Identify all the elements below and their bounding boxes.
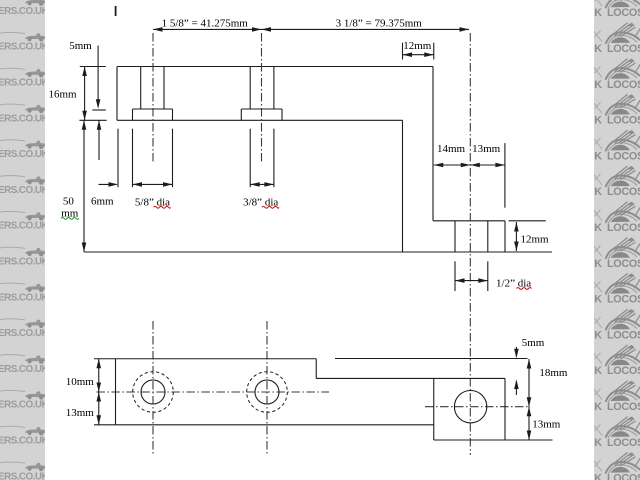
svg-text:LOCOST: LOCOST — [607, 401, 640, 413]
svg-text:LOCOST: LOCOST — [607, 7, 640, 19]
svg-text:K: K — [594, 437, 602, 449]
svg-text:5/8” dia: 5/8” dia — [135, 197, 170, 209]
svg-text:K: K — [594, 43, 602, 55]
svg-text:16mm: 16mm — [48, 89, 77, 101]
svg-text:LOCOST: LOCOST — [607, 186, 640, 198]
svg-text:K: K — [594, 7, 602, 19]
svg-text:DERS.CO.UK: DERS.CO.UK — [0, 436, 49, 447]
svg-text:K: K — [594, 79, 602, 91]
svg-text:18mm: 18mm — [539, 367, 568, 379]
svg-text:LOCOST: LOCOST — [607, 43, 640, 55]
svg-text:13mm: 13mm — [532, 419, 561, 431]
svg-text:LOCOST: LOCOST — [607, 222, 640, 234]
svg-text:13mm: 13mm — [472, 143, 501, 155]
svg-text:DERS.CO.UK: DERS.CO.UK — [0, 78, 49, 89]
svg-text:DERS.CO.UK: DERS.CO.UK — [0, 292, 49, 303]
svg-text:DERS.CO.UK: DERS.CO.UK — [0, 364, 49, 375]
svg-text:K: K — [594, 329, 602, 341]
svg-text:5mm: 5mm — [522, 337, 545, 349]
svg-text:K: K — [594, 150, 602, 162]
svg-text:LOCOST: LOCOST — [607, 79, 640, 91]
svg-text:K: K — [594, 473, 602, 480]
svg-text:K: K — [594, 365, 602, 377]
svg-text:K: K — [594, 401, 602, 413]
svg-text:K: K — [594, 258, 602, 270]
svg-text:K: K — [594, 115, 602, 127]
svg-text:LOCOST: LOCOST — [607, 329, 640, 341]
svg-text:DERS.CO.UK: DERS.CO.UK — [0, 6, 49, 17]
svg-text:DERS.CO.UK: DERS.CO.UK — [0, 113, 49, 124]
svg-text:DERS.CO.UK: DERS.CO.UK — [0, 185, 49, 196]
svg-text:K: K — [594, 186, 602, 198]
svg-text:LOCOST: LOCOST — [607, 473, 640, 480]
svg-text:DERS.CO.UK: DERS.CO.UK — [0, 257, 49, 268]
svg-text:12mm: 12mm — [520, 234, 549, 246]
svg-text:1 5/8” = 41.275mm: 1 5/8” = 41.275mm — [162, 17, 249, 29]
svg-text:K: K — [594, 222, 602, 234]
svg-text:DERS.CO.UK: DERS.CO.UK — [0, 328, 49, 339]
svg-text:6mm: 6mm — [91, 196, 114, 208]
svg-text:DERS.CO.UK: DERS.CO.UK — [0, 400, 49, 411]
svg-text:12mm: 12mm — [403, 40, 432, 52]
svg-text:LOCOST: LOCOST — [607, 150, 640, 162]
svg-text:K: K — [594, 294, 602, 306]
svg-text:14mm: 14mm — [437, 143, 466, 155]
svg-text:LOCOST: LOCOST — [607, 437, 640, 449]
svg-text:DERS.CO.UK: DERS.CO.UK — [0, 149, 49, 160]
svg-text:1/2” dia: 1/2” dia — [496, 277, 531, 289]
svg-text:LOCOST: LOCOST — [607, 115, 640, 127]
svg-text:LOCOST: LOCOST — [607, 294, 640, 306]
svg-text:DERS.CO.UK: DERS.CO.UK — [0, 221, 49, 232]
svg-text:LOCOST: LOCOST — [607, 258, 640, 270]
svg-text:5mm: 5mm — [69, 40, 92, 52]
svg-text:3 1/8” = 79.375mm: 3 1/8” = 79.375mm — [336, 17, 423, 29]
svg-text:10mm: 10mm — [66, 376, 95, 388]
svg-text:DERS.CO.UK: DERS.CO.UK — [0, 471, 49, 480]
svg-text:13mm: 13mm — [66, 407, 95, 419]
svg-text:3/8” dia: 3/8” dia — [243, 197, 278, 209]
svg-text:DERS.CO.UK: DERS.CO.UK — [0, 42, 49, 53]
svg-text:50: 50 — [63, 196, 75, 208]
svg-text:LOCOST: LOCOST — [607, 365, 640, 377]
